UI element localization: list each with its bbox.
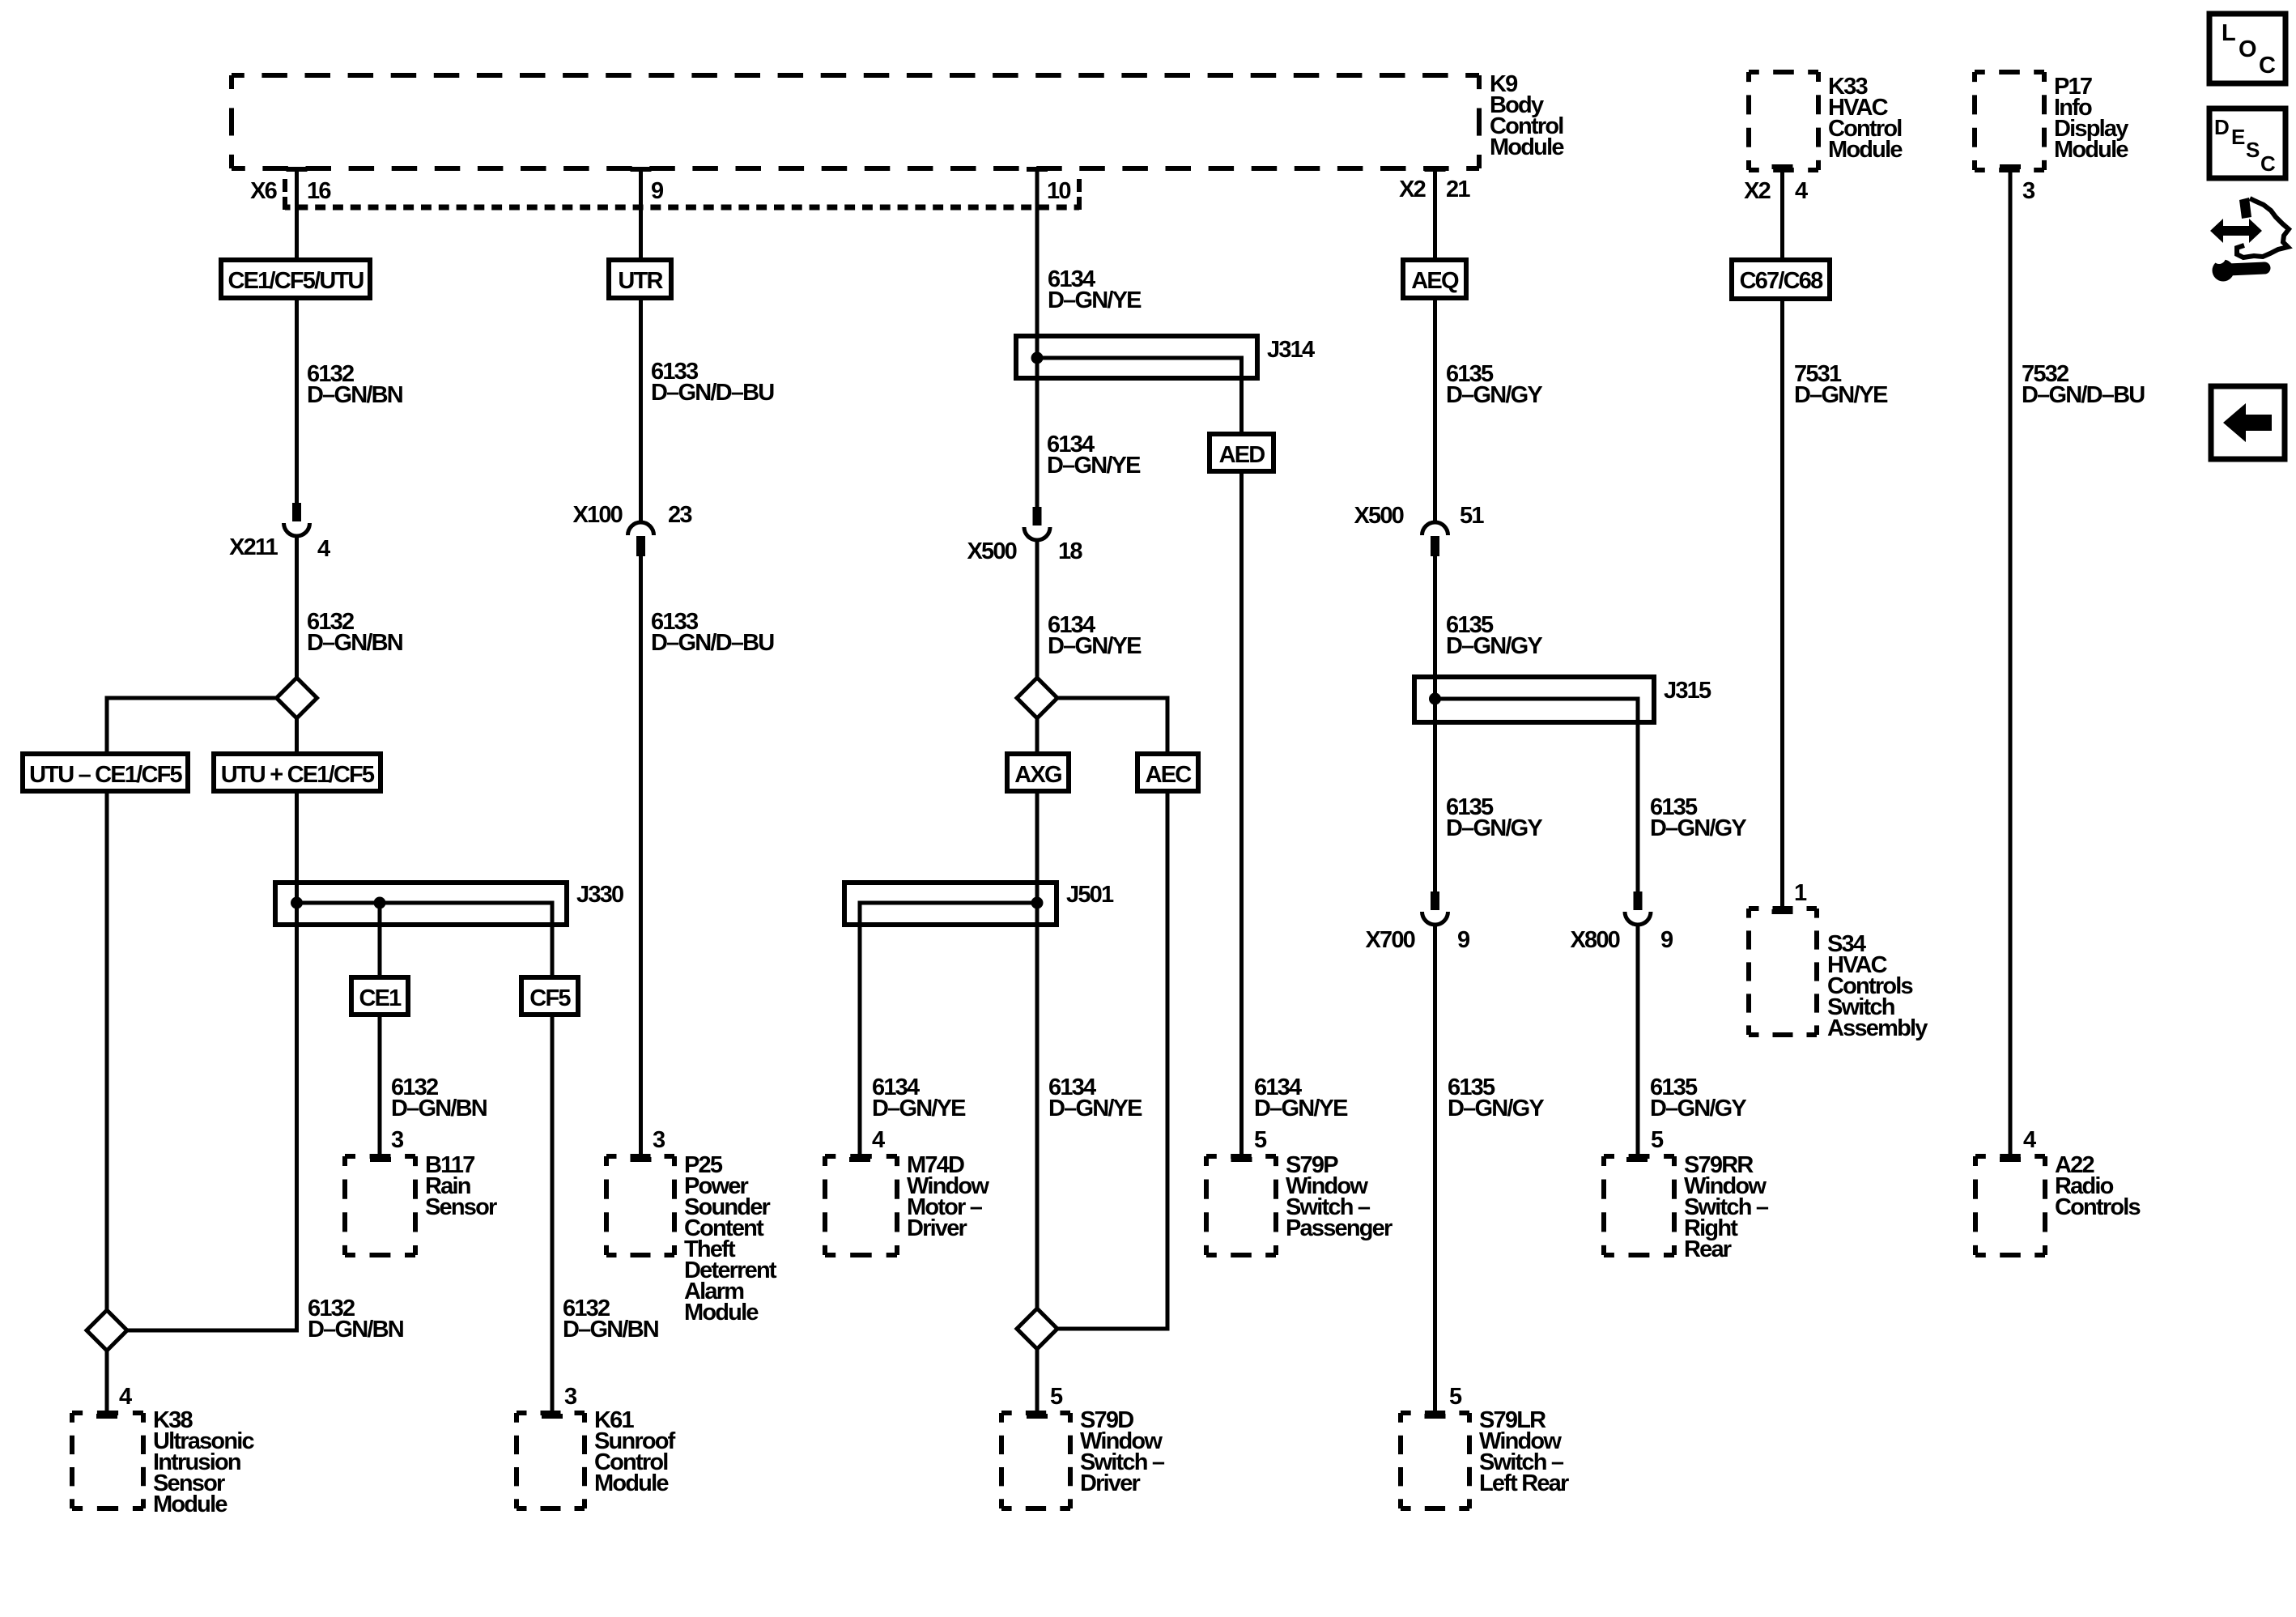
wire 6134 from K9 pin 10 through J314 to X500 bbox=[1035, 168, 1040, 507]
terminal t-bar S79LR bbox=[1425, 1414, 1446, 1419]
terminal t-bar S34 bbox=[1772, 909, 1793, 914]
svg-text:1: 1 bbox=[1794, 880, 1807, 906]
svg-text:X6: X6 bbox=[250, 178, 278, 204]
svg-text:3: 3 bbox=[391, 1127, 404, 1153]
net label AXG bbox=[1007, 754, 1069, 791]
component K61 Sunroof Control Module (dashed box) bbox=[517, 1411, 585, 1415]
svg-text:3: 3 bbox=[564, 1384, 577, 1410]
svg-text:D–GN/D–BU: D–GN/D–BU bbox=[651, 380, 774, 406]
wire 6134 from X500 to splice D3 bbox=[1035, 542, 1040, 679]
wire AXG down through J501 to splice D4 bbox=[1035, 791, 1040, 1309]
wire 6135 from K9 X2-21 to AEQ bbox=[1433, 168, 1437, 260]
svg-text:Module: Module bbox=[2054, 137, 2128, 163]
svg-text:D–GN/YE: D–GN/YE bbox=[1794, 382, 1888, 408]
wire J501 internal bus to M74D bbox=[860, 903, 1037, 1158]
terminal t-bar M74D bbox=[849, 1157, 870, 1162]
icon wiring-repair tool (arrow, panel outline, wrench) bbox=[2210, 219, 2262, 243]
svg-text:3: 3 bbox=[2022, 178, 2035, 204]
component M74D Window Motor Driver (dashed box) bbox=[825, 1154, 897, 1159]
svg-text:D–GN/GY: D–GN/GY bbox=[1446, 633, 1542, 659]
svg-text:21: 21 bbox=[1446, 177, 1470, 202]
svg-text:D–GN/GY: D–GN/GY bbox=[1446, 382, 1542, 408]
connector X700 pin 9 bbox=[1431, 891, 1439, 910]
svg-text:J315: J315 bbox=[1664, 678, 1711, 704]
junction block J315 bbox=[1414, 677, 1654, 722]
svg-text:D–GN/BN: D–GN/BN bbox=[307, 382, 402, 408]
wire branch to UTU-CE1/CF5 bbox=[107, 698, 278, 754]
svg-text:X211: X211 bbox=[229, 534, 278, 560]
svg-text:C: C bbox=[2260, 151, 2276, 176]
svg-text:AEC: AEC bbox=[1146, 762, 1193, 788]
svg-text:5: 5 bbox=[1050, 1384, 1063, 1410]
svg-text:4: 4 bbox=[2023, 1127, 2036, 1153]
svg-text:16: 16 bbox=[307, 178, 331, 204]
svg-text:23: 23 bbox=[668, 502, 692, 528]
wire AEC down to splice D4 bbox=[1057, 791, 1167, 1329]
net label UTU - CE1/CF5 bbox=[23, 754, 188, 791]
svg-text:E: E bbox=[2231, 125, 2245, 149]
wire 7531 from K33 to C67/C68 bbox=[1780, 170, 1784, 260]
svg-text:D–GN/YE: D–GN/YE bbox=[1048, 633, 1142, 659]
svg-text:Module: Module bbox=[594, 1470, 669, 1496]
net label CE1/CF5/UTU bbox=[221, 260, 370, 298]
wire J314 internal bus to AED bbox=[1037, 358, 1242, 434]
terminal t-bar K38 bbox=[96, 1414, 117, 1419]
svg-text:X700: X700 bbox=[1365, 927, 1414, 953]
svg-text:J501: J501 bbox=[1066, 882, 1114, 908]
svg-text:X2: X2 bbox=[1399, 177, 1426, 202]
svg-text:Sensor: Sensor bbox=[425, 1194, 497, 1220]
svg-text:AXG: AXG bbox=[1014, 762, 1061, 788]
svg-text:5: 5 bbox=[1449, 1384, 1462, 1410]
pin X2-21 t-bar on K9 bbox=[1425, 167, 1446, 172]
svg-text:Driver: Driver bbox=[1080, 1470, 1141, 1496]
svg-text:D–GN/GY: D–GN/GY bbox=[1650, 815, 1746, 841]
svg-text:CE1/CF5/UTU: CE1/CF5/UTU bbox=[227, 268, 364, 294]
component S34 HVAC Controls Switch Assembly (dashed box) bbox=[1749, 906, 1817, 911]
svg-text:D–GN/GY: D–GN/GY bbox=[1448, 1096, 1544, 1121]
svg-text:4: 4 bbox=[1795, 178, 1808, 204]
connector X500 pin 51 bbox=[1422, 522, 1448, 535]
splice diamond D2 bbox=[87, 1310, 127, 1351]
wire 7532 from P17 to A22 bbox=[2009, 170, 2013, 1158]
wire X800 to S79RR bbox=[1636, 926, 1640, 1158]
terminal t-bar K61 bbox=[542, 1414, 563, 1419]
svg-text:L: L bbox=[2222, 20, 2236, 46]
component S79D Window Switch Driver (dashed box) bbox=[1001, 1411, 1070, 1415]
connector X800 pin 9 bbox=[1634, 891, 1643, 910]
svg-text:S: S bbox=[2246, 138, 2260, 162]
net label AED bbox=[1210, 434, 1273, 471]
svg-text:Assembly: Assembly bbox=[1827, 1015, 1928, 1041]
terminal t-bar A22 bbox=[2000, 1157, 2021, 1162]
svg-text:J314: J314 bbox=[1267, 337, 1315, 363]
svg-text:D–GN/D–BU: D–GN/D–BU bbox=[2022, 382, 2145, 408]
svg-text:Rear: Rear bbox=[1684, 1236, 1732, 1262]
wire UTU+CE1/CF5 down through J330 to bend bbox=[126, 791, 297, 1330]
wire 6133 from K9 pin 9 to UTR bbox=[639, 168, 643, 260]
connector X500 pin 18 bbox=[1033, 507, 1042, 526]
wire 7531 to S34 bbox=[1780, 299, 1784, 910]
pin 3 t-bar on P17 bbox=[2000, 164, 2021, 169]
wire 6132 from K9 pin 16 to CE1/CF5/UTU bbox=[295, 168, 299, 260]
svg-text:Module: Module bbox=[1490, 134, 1564, 160]
svg-text:18: 18 bbox=[1058, 538, 1082, 564]
net label CE1 bbox=[351, 977, 408, 1015]
component A22 Radio Controls (dashed box) bbox=[1975, 1154, 2045, 1159]
svg-text:D–GN/YE: D–GN/YE bbox=[1048, 287, 1142, 313]
svg-text:AEQ: AEQ bbox=[1411, 268, 1459, 294]
component K38 Ultrasonic Intrusion Sensor Module (dashed box) bbox=[72, 1411, 143, 1415]
svg-text:3: 3 bbox=[653, 1127, 665, 1153]
wire 6135 from X500-51 through J315 to X700 bbox=[1433, 556, 1437, 891]
connector X100 pin 23 bbox=[628, 522, 654, 535]
svg-text:UTU + CE1/CF5: UTU + CE1/CF5 bbox=[221, 762, 375, 788]
svg-text:Controls: Controls bbox=[2055, 1194, 2140, 1220]
svg-text:J330: J330 bbox=[576, 882, 623, 908]
svg-text:Driver: Driver bbox=[907, 1215, 967, 1241]
svg-text:X500: X500 bbox=[967, 538, 1016, 564]
splice diamond D1 bbox=[277, 678, 317, 718]
svg-text:Module: Module bbox=[684, 1300, 759, 1326]
component P25 Power Sounder Module (dashed box) bbox=[606, 1154, 674, 1159]
wire 6135 to X500-51 bbox=[1433, 298, 1437, 521]
svg-text:5: 5 bbox=[1651, 1127, 1664, 1153]
svg-text:Left Rear: Left Rear bbox=[1479, 1470, 1569, 1496]
wire 6133 to X100 bbox=[639, 298, 643, 521]
net label AEQ bbox=[1403, 260, 1466, 298]
svg-text:AED: AED bbox=[1219, 442, 1265, 468]
net label AEC bbox=[1137, 754, 1198, 791]
svg-text:X100: X100 bbox=[572, 502, 622, 528]
wire splice D2 to K38 bbox=[105, 1350, 109, 1415]
pin 16 t-bar on K9 bbox=[287, 167, 308, 172]
svg-text:51: 51 bbox=[1460, 503, 1484, 529]
svg-text:D–GN/GY: D–GN/GY bbox=[1650, 1096, 1746, 1121]
component S79P Window Switch Passenger (dashed box) bbox=[1206, 1154, 1276, 1159]
connector X6 tick left bbox=[283, 179, 287, 192]
pin 9 t-bar on K9 bbox=[631, 167, 652, 172]
junction block J314 bbox=[1016, 336, 1257, 378]
svg-text:Module: Module bbox=[1828, 137, 1903, 163]
module K9 Body Control Module (dashed box) bbox=[232, 73, 1479, 78]
wire 6133 from X100 to P25 bbox=[639, 556, 643, 1158]
svg-text:UTU – CE1/CF5: UTU – CE1/CF5 bbox=[29, 762, 182, 788]
junction dot J314 bbox=[1031, 352, 1044, 364]
junction dot CE1 branch bbox=[374, 897, 386, 909]
module K33 HVAC Control Module (dashed box) bbox=[1749, 70, 1818, 74]
wire 6132 to connector X211 bbox=[295, 298, 299, 503]
connector X6 tick right bbox=[1077, 179, 1082, 192]
svg-text:UTR: UTR bbox=[618, 268, 663, 294]
net label UTU + CE1/CF5 bbox=[214, 754, 381, 791]
svg-text:D–GN/YE: D–GN/YE bbox=[1048, 1096, 1142, 1121]
svg-text:4: 4 bbox=[872, 1127, 885, 1153]
connector X6 dotted boundary line bbox=[285, 205, 1079, 211]
module P17 Info Display Module (dashed box) bbox=[1975, 70, 2044, 74]
wire CF5 to K61 bbox=[551, 1015, 555, 1415]
terminal t-bar P25 bbox=[631, 1157, 652, 1162]
wire J315 internal bus to X800 branch bbox=[1435, 699, 1639, 891]
svg-text:D–GN/BN: D–GN/BN bbox=[307, 630, 402, 656]
wire CE1 to B117 bbox=[378, 1015, 382, 1158]
svg-text:D–GN/GY: D–GN/GY bbox=[1446, 815, 1542, 841]
svg-text:9: 9 bbox=[1660, 927, 1673, 953]
wire UTU-CE1/CF5 down left branch bbox=[105, 791, 109, 1311]
svg-text:O: O bbox=[2239, 36, 2257, 62]
pin 10 t-bar on K9 bbox=[1027, 167, 1048, 172]
svg-text:Module: Module bbox=[153, 1491, 227, 1517]
wire AED to S79P bbox=[1239, 471, 1244, 1158]
pin X2-4 t-bar on K33 bbox=[1772, 164, 1793, 169]
wire splice to UTU+CE1/CF5 box bbox=[295, 717, 299, 754]
svg-text:D–GN/BN: D–GN/BN bbox=[308, 1317, 403, 1343]
terminal t-bar B117 bbox=[370, 1157, 391, 1162]
wire splice D3 to AEC bbox=[1057, 698, 1167, 754]
svg-text:C67/C68: C67/C68 bbox=[1740, 268, 1824, 294]
wire J330 internal bus to CF5 drop bbox=[297, 903, 553, 977]
splice diamond D4 bbox=[1017, 1308, 1057, 1349]
svg-text:C: C bbox=[2259, 53, 2276, 79]
svg-text:4: 4 bbox=[317, 536, 330, 562]
wire CE1 branch drop bbox=[378, 903, 382, 977]
svg-text:X2: X2 bbox=[1744, 178, 1771, 204]
wire splice D4 to S79D bbox=[1035, 1348, 1040, 1415]
svg-text:D–GN/D–BU: D–GN/D–BU bbox=[651, 630, 774, 656]
svg-text:Passenger: Passenger bbox=[1286, 1215, 1392, 1241]
net label UTR bbox=[609, 260, 671, 298]
net label CF5 bbox=[521, 977, 578, 1015]
icon DESC box bbox=[2209, 109, 2285, 178]
terminal t-bar S79RR bbox=[1626, 1157, 1648, 1162]
svg-text:9: 9 bbox=[1457, 927, 1470, 953]
svg-text:D–GN/YE: D–GN/YE bbox=[1254, 1096, 1348, 1121]
svg-text:X800: X800 bbox=[1570, 927, 1619, 953]
svg-text:5: 5 bbox=[1254, 1127, 1267, 1153]
net label C67/C68 bbox=[1732, 260, 1830, 299]
svg-text:CE1: CE1 bbox=[359, 985, 402, 1011]
terminal t-bar S79P bbox=[1231, 1157, 1252, 1162]
junction dot J501 bbox=[1031, 897, 1044, 909]
icon LOC box bbox=[2209, 14, 2285, 83]
terminal t-bar S79D bbox=[1027, 1414, 1048, 1419]
junction block J330 bbox=[275, 883, 567, 925]
svg-text:D–GN/BN: D–GN/BN bbox=[391, 1096, 487, 1121]
svg-text:CF5: CF5 bbox=[529, 985, 571, 1011]
svg-text:D–GN/YE: D–GN/YE bbox=[1047, 453, 1141, 479]
svg-text:D: D bbox=[2214, 115, 2230, 139]
junction dot on wire A bbox=[291, 897, 303, 909]
icon back-arrow box bbox=[2211, 386, 2285, 459]
junction dot J315 bbox=[1429, 693, 1441, 705]
junction block J501 bbox=[844, 883, 1057, 925]
wire splice D3 to AXG bbox=[1035, 717, 1040, 754]
component S79LR Window Switch Left Rear (dashed box) bbox=[1401, 1411, 1469, 1415]
svg-text:4: 4 bbox=[119, 1384, 132, 1410]
connector X211 pin 4 bbox=[292, 503, 301, 521]
wire 6132 from X211 to splice diamond bbox=[295, 538, 299, 679]
splice diamond D3 bbox=[1017, 678, 1057, 718]
svg-text:9: 9 bbox=[651, 178, 664, 204]
svg-text:10: 10 bbox=[1047, 178, 1070, 204]
svg-text:D–GN/YE: D–GN/YE bbox=[872, 1096, 966, 1121]
wire X700 to S79LR bbox=[1433, 926, 1437, 1415]
component B117 Rain Sensor (dashed box) bbox=[345, 1154, 415, 1159]
svg-text:X500: X500 bbox=[1354, 503, 1403, 529]
component S79RR Window Switch Right Rear (dashed box) bbox=[1604, 1154, 1674, 1159]
svg-text:D–GN/BN: D–GN/BN bbox=[563, 1317, 658, 1343]
